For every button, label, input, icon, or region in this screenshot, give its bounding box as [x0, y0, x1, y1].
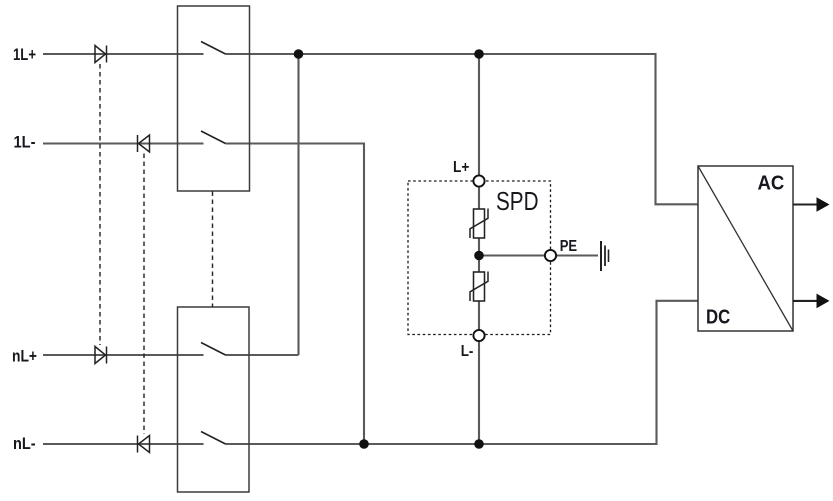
switch contact S1 (1L+) — [201, 42, 226, 55]
wire nL- left segment — [43, 443, 204, 445]
svg-text:1L-: 1L- — [14, 134, 36, 152]
linkage dashed line between contactors — [212, 192, 214, 308]
junction dot at 1L+/SPD branch — [474, 49, 484, 59]
node L- terminal circle — [473, 330, 484, 341]
junction dot nL-/1L- drop — [359, 439, 369, 449]
svg-text:PE: PE — [560, 238, 577, 255]
wire 1L+ left segment — [43, 53, 204, 55]
wire 1L- right segment dropping to nL- line — [226, 144, 365, 445]
switch contact S3 (nL+) — [201, 343, 226, 356]
contactor K2 box — [178, 307, 250, 492]
dashed link diodes D1-D3 — [99, 64, 101, 345]
wire 1L- left segment — [43, 142, 204, 144]
contactor K1 box — [178, 6, 250, 191]
svg-text:DC: DC — [706, 306, 730, 329]
wire PE branch horizontal — [479, 254, 598, 256]
svg-text:L-: L- — [461, 343, 474, 360]
svg-text:nL+: nL+ — [12, 347, 37, 365]
diode D4 on nL- (reversed) — [138, 436, 150, 453]
node L+ terminal circle — [473, 175, 484, 186]
varistor RV2 — [470, 272, 488, 302]
svg-text:AC: AC — [758, 172, 785, 195]
ground symbol — [601, 241, 609, 271]
switch contact S4 (nL-) — [201, 432, 226, 445]
wire nL- right segment to converter DC input — [226, 301, 699, 444]
junction dot at 1L+/riser — [294, 49, 304, 59]
diode D1 on 1L+ — [95, 46, 107, 63]
converter U1 AC/DC box — [698, 166, 793, 331]
switch contact S2 (1L-) — [201, 131, 226, 144]
wire SPD branch vertical — [478, 54, 480, 444]
svg-text:SPD: SPD — [496, 186, 539, 216]
SPD dashed enclosure — [408, 181, 551, 335]
junction dot nL-/SPD branch — [474, 439, 484, 449]
svg-text:1L+: 1L+ — [13, 46, 36, 64]
diode D2 on 1L- (reversed) — [138, 135, 150, 152]
output arrow DC — [793, 294, 830, 309]
svg-text:nL-: nL- — [13, 435, 36, 453]
diode D3 on nL+ — [95, 347, 107, 364]
wire nL+ left segment — [43, 354, 204, 356]
node PE terminal circle — [545, 250, 556, 261]
wire nL+ right segment — [226, 354, 299, 356]
wire 1L+ right segment to converter AC input — [226, 54, 699, 204]
varistor RV1 — [470, 209, 488, 239]
output arrow AC — [793, 197, 830, 212]
wire riser from 1L+ node down to nL+ — [297, 54, 299, 355]
junction dot SPD midpoint — [474, 251, 484, 261]
svg-text:L+: L+ — [453, 159, 469, 176]
dashed link diodes D2-D4 — [143, 154, 145, 435]
